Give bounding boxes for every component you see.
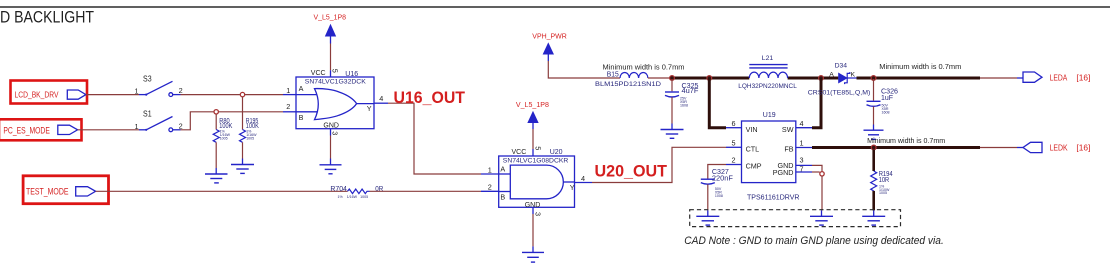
wire U19 GND/PGND to ground bbox=[796, 164, 812, 166]
svg-text:4: 4 bbox=[581, 174, 585, 183]
diode D34 CRS01 bbox=[808, 63, 871, 97]
svg-text:4: 4 bbox=[379, 94, 383, 103]
svg-text:CRS01(TE85L,Q,M): CRS01(TE85L,Q,M) bbox=[808, 89, 871, 96]
wire U20 GND to ground bbox=[532, 207, 534, 214]
port TEST_MODE bbox=[23, 176, 108, 204]
op-amp U16 OR-gate SN74LVC1G32DCK bbox=[286, 69, 383, 135]
svg-text:1uF: 1uF bbox=[881, 95, 893, 102]
IC U19 TPS61161DRVR bbox=[732, 112, 804, 202]
wire B15 to junction bbox=[648, 77, 672, 79]
wire node to ground bbox=[821, 176, 823, 210]
wire to LEDK port bbox=[980, 147, 1017, 149]
svg-text:3: 3 bbox=[800, 156, 804, 165]
ground U20 bbox=[522, 246, 544, 262]
svg-text:10R: 10R bbox=[879, 177, 890, 184]
port LCD_BK_DRV bbox=[11, 81, 88, 104]
svg-text:SN74LVC1G32DCK: SN74LVC1G32DCK bbox=[305, 79, 367, 86]
thick wire to U19 VIN bbox=[709, 78, 726, 128]
wire U19 FB to LEDK rail bbox=[796, 147, 812, 149]
svg-text:1608: 1608 bbox=[680, 103, 688, 107]
svg-text:2: 2 bbox=[179, 121, 183, 130]
svg-text:4: 4 bbox=[800, 119, 804, 128]
svg-text:A: A bbox=[500, 164, 505, 173]
svg-text:4u7F: 4u7F bbox=[682, 88, 699, 95]
svg-text:B: B bbox=[500, 193, 505, 202]
wire S3 to U16 pin A bbox=[181, 94, 284, 96]
svg-text:S3: S3 bbox=[143, 74, 152, 84]
svg-text:6: 6 bbox=[732, 119, 736, 128]
capacitor C326 1uF bbox=[867, 79, 899, 125]
svg-text:S1: S1 bbox=[143, 109, 152, 119]
svg-text:LQH32PN220MNCL: LQH32PN220MNCL bbox=[738, 83, 797, 90]
resistor R194 10R bbox=[871, 150, 893, 211]
svg-text:SN74LVC1G08DCKR: SN74LVC1G08DCKR bbox=[503, 157, 569, 164]
svg-text:Minimum width is 0.7mm: Minimum width is 0.7mm bbox=[879, 64, 961, 71]
svg-text:3: 3 bbox=[330, 131, 339, 135]
svg-text:1008: 1008 bbox=[715, 194, 723, 198]
junction node R194 bbox=[871, 145, 876, 150]
svg-text:V_L5_1P8: V_L5_1P8 bbox=[516, 102, 549, 109]
port PC_ES_MODE bbox=[0, 119, 82, 140]
wire TEST_MODE to R704 bbox=[96, 190, 348, 192]
resistor R195 bbox=[240, 97, 260, 159]
wire S1 to U16 pin B bbox=[181, 112, 284, 130]
port LEDK bbox=[1023, 142, 1090, 152]
svg-text:2: 2 bbox=[732, 156, 736, 165]
ground U16 bbox=[320, 159, 342, 174]
svg-text:B15: B15 bbox=[607, 72, 619, 79]
switch S1 bbox=[135, 109, 183, 132]
sheet border top line bbox=[0, 6, 1110, 8]
svg-text:1: 1 bbox=[135, 122, 139, 131]
svg-text:Minimum width is 0.7mm: Minimum width is 0.7mm bbox=[867, 138, 945, 145]
svg-text:LCD BACKLIGHT: LCD BACKLIGHT bbox=[0, 8, 94, 27]
svg-text:K: K bbox=[851, 71, 856, 78]
svg-text:1: 1 bbox=[286, 86, 290, 95]
ground under C327 bbox=[696, 210, 719, 225]
junction node GND/PGND bbox=[820, 172, 824, 176]
svg-text:1608: 1608 bbox=[882, 111, 890, 115]
CAD note dashed box bbox=[690, 210, 901, 227]
ground under C326 bbox=[864, 125, 884, 140]
wire LCD_BK_DRV to S3 bbox=[86, 94, 139, 96]
svg-text:1005: 1005 bbox=[220, 136, 228, 140]
svg-text:U16: U16 bbox=[345, 71, 358, 78]
svg-text:[16]: [16] bbox=[1076, 72, 1090, 82]
svg-text:2: 2 bbox=[488, 183, 492, 192]
wire R704 to U20 pin B bbox=[370, 190, 482, 192]
svg-text:2: 2 bbox=[179, 86, 183, 95]
svg-text:GND: GND bbox=[323, 123, 339, 130]
svg-text:A: A bbox=[299, 84, 304, 93]
svg-text:[16]: [16] bbox=[1076, 143, 1090, 153]
svg-text:Y: Y bbox=[367, 104, 372, 113]
svg-text:VPH_PWR: VPH_PWR bbox=[532, 34, 567, 41]
svg-text:A: A bbox=[829, 72, 834, 79]
svg-text:Y: Y bbox=[570, 183, 575, 192]
wire VPH_PWR to B15 bbox=[548, 61, 620, 78]
svg-text:2: 2 bbox=[286, 102, 290, 111]
resistor R80 bbox=[213, 114, 232, 168]
svg-text:D34: D34 bbox=[835, 63, 848, 70]
svg-text:5: 5 bbox=[732, 138, 736, 147]
ground under R80 bbox=[205, 168, 228, 183]
svg-text:R704: R704 bbox=[330, 186, 347, 193]
svg-text:220nF: 220nF bbox=[712, 175, 733, 182]
svg-text:PC_ES_MODE: PC_ES_MODE bbox=[3, 125, 50, 135]
svg-text:LEDA: LEDA bbox=[1050, 72, 1068, 82]
wire power to U20 VCC bbox=[532, 129, 534, 149]
svg-text:VIN: VIN bbox=[746, 125, 758, 134]
wire U20 Y to U19 CTL bbox=[575, 182, 593, 184]
svg-text:FB: FB bbox=[784, 144, 793, 153]
junction node R195 top bbox=[240, 92, 244, 96]
svg-text:LCD_BK_DRV: LCD_BK_DRV bbox=[15, 89, 59, 99]
ground under R194 bbox=[862, 210, 885, 225]
svg-text:1: 1 bbox=[800, 138, 804, 147]
wire PC_ES_MODE to S1 bbox=[78, 129, 139, 131]
svg-text:BLM15PD121SN1D: BLM15PD121SN1D bbox=[595, 81, 661, 88]
junction node VIN drop bbox=[707, 76, 712, 81]
svg-text:1: 1 bbox=[135, 87, 139, 96]
ground U19 bbox=[810, 210, 833, 225]
svg-text:LEDK: LEDK bbox=[1050, 143, 1068, 153]
svg-text:Minimum width is 0.7mm: Minimum width is 0.7mm bbox=[603, 65, 685, 72]
wire U16 GND to ground bbox=[330, 129, 332, 136]
svg-text:U20_OUT: U20_OUT bbox=[595, 163, 668, 181]
inductor L21 LQH32PN220MNCL bbox=[738, 55, 797, 90]
svg-text:SW: SW bbox=[782, 125, 794, 134]
svg-text:CMP: CMP bbox=[746, 162, 762, 171]
junction node C325 bbox=[670, 76, 675, 81]
svg-text:3: 3 bbox=[533, 212, 542, 216]
junction node R80 top bbox=[214, 110, 218, 114]
wire power to U16 VCC bbox=[330, 44, 332, 71]
svg-text:1: 1 bbox=[488, 165, 492, 174]
svg-text:5: 5 bbox=[330, 69, 339, 73]
svg-text:CTL: CTL bbox=[746, 144, 760, 153]
capacitor C327 220nF bbox=[701, 169, 733, 211]
svg-text:V_L5_1P8: V_L5_1P8 bbox=[314, 14, 347, 21]
wire to LEDA port bbox=[980, 77, 1017, 79]
svg-text:PGND: PGND bbox=[773, 168, 794, 177]
svg-text:U16_OUT: U16_OUT bbox=[394, 89, 466, 107]
svg-text:U19: U19 bbox=[763, 112, 776, 119]
power symbol V_L5_1P8 (U20) bbox=[516, 102, 549, 129]
svg-text:TEST_MODE: TEST_MODE bbox=[26, 186, 69, 196]
svg-text:1% 1/16W 1005: 1% 1/16W 1005 bbox=[338, 195, 369, 199]
op-amp U20 AND-gate SN74LVC1G08DCKR bbox=[488, 146, 585, 216]
wire U16 Y output bbox=[374, 102, 388, 104]
power symbol VPH_PWR bbox=[532, 34, 567, 61]
thick wire to U19 SW bbox=[812, 78, 821, 128]
svg-text:VCC: VCC bbox=[311, 70, 326, 77]
svg-text:1005: 1005 bbox=[246, 136, 254, 140]
svg-text:U20: U20 bbox=[550, 149, 563, 156]
junction node SW drop bbox=[819, 76, 824, 81]
svg-text:1005: 1005 bbox=[879, 191, 887, 195]
junction node C326 bbox=[871, 76, 876, 81]
ferrite bead B15 BLM15PD121SN1D bbox=[595, 72, 661, 89]
svg-text:CAD Note : GND to main GND pla: CAD Note : GND to main GND plane using d… bbox=[684, 235, 944, 247]
thick net wire LEDK rail bbox=[812, 146, 980, 149]
port LEDA bbox=[1023, 72, 1090, 82]
power symbol V_L5_1P8 (U16) bbox=[314, 14, 347, 43]
svg-text:L21: L21 bbox=[762, 55, 774, 62]
svg-text:B: B bbox=[299, 113, 304, 122]
ground under C325 bbox=[661, 124, 684, 139]
switch S3 bbox=[135, 74, 183, 97]
resistor R704 0R bbox=[330, 186, 383, 199]
wire U19 CMP to C327 bbox=[726, 164, 742, 166]
capacitor C325 4u7F bbox=[665, 79, 699, 124]
svg-text:VCC: VCC bbox=[512, 149, 527, 156]
thick net wire top rail bbox=[672, 77, 749, 80]
svg-text:5: 5 bbox=[533, 146, 542, 150]
ground under R195 bbox=[231, 159, 254, 174]
svg-text:TPS61161DRVR: TPS61161DRVR bbox=[747, 195, 800, 202]
